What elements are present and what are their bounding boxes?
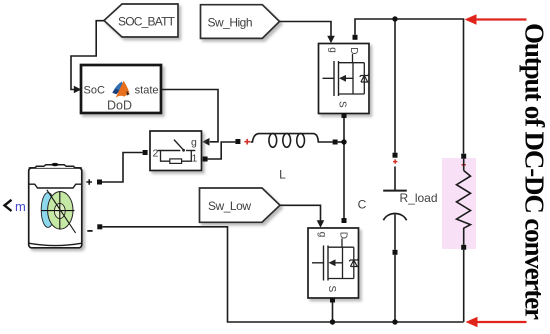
svg-text:g: g [317,232,328,238]
wire inductor to node [338,141,344,143]
wire Sw_Low to mosfet2 gate [280,205,324,228]
node inductor junction [341,139,346,144]
port square inductor right [333,140,338,145]
matlab logo [112,81,129,98]
wire capacitor branch from top bus [394,19,396,153]
svg-text:L: L [279,168,286,182]
wire switch port 1 to inductor [208,142,236,159]
port square mosfet2 S [330,298,335,303]
wire mosfet1 D to top bus and down right side [355,19,464,154]
rotated title Output of DC-DC converter [520,23,550,320]
mosfet U_low block [308,228,359,298]
node bottom bus mosfet2 [330,319,335,324]
wire battery plus to switch port 2 [102,153,143,183]
wire Sw_High to mosfet1 gate [280,22,335,44]
wire capacitor to bottom bus [394,255,396,322]
svg-text:m: m [15,199,26,214]
svg-text:Sw_High: Sw_High [208,15,253,29]
tag SOC_BATT [104,4,178,37]
wire mosfet1 S down to node and mosfet2 D [343,118,345,218]
battery block [29,163,82,248]
red arrow top output [465,14,527,25]
svg-text:SOC_BATT: SOC_BATT [118,15,176,29]
port square mosfet1 S [342,113,347,118]
wire SOC_BATT to DoD input [71,21,104,94]
battery m port arrow [5,199,26,214]
node bottom bus capacitor [392,319,397,324]
svg-text:DoD: DoD [107,99,132,113]
red plus inductor [244,139,250,145]
node top bus junction [392,16,397,21]
wire battery minus to bottom bus [102,227,463,322]
wire mosfet2 S to bottom bus [332,303,334,323]
svg-text:D: D [338,232,349,239]
battery minus port [87,224,102,231]
svg-text:g: g [327,47,338,53]
port square mosfet1 D [353,35,358,40]
svg-text:R_load: R_load [400,191,438,205]
wire resistor to bottom bus [463,250,465,322]
highlight box R_load [442,158,476,249]
svg-text:g: g [191,137,197,149]
svg-text:2: 2 [153,148,159,160]
svg-text:C: C [358,198,367,212]
capacitor C [358,153,407,255]
port square switch right [203,157,208,162]
port square inductor left [235,139,240,144]
resistor R_load [400,154,471,250]
battery plus port [86,179,102,185]
battery logo [41,190,76,233]
red arrow bottom output [466,317,527,328]
svg-text:state: state [135,85,159,97]
switch block U_sw [150,131,202,171]
mosfet U_high block [319,44,370,114]
inductor L [251,134,333,182]
svg-text:1: 1 [192,153,198,165]
tag Sw_Low [200,188,281,222]
svg-text:D: D [348,47,359,54]
wire DoD state to switch gate [161,90,218,146]
svg-text:S: S [337,101,348,108]
svg-text:Sw_Low: Sw_Low [208,199,251,213]
svg-text:Output of DC-DC converter: Output of DC-DC converter [520,23,550,320]
port square switch left [143,150,148,155]
svg-text:SoC: SoC [84,85,105,97]
port square mosfet2 D [342,218,347,223]
svg-text:S: S [326,286,337,293]
MATLAB function block U_DoD [81,65,161,113]
tag Sw_High [201,5,280,39]
